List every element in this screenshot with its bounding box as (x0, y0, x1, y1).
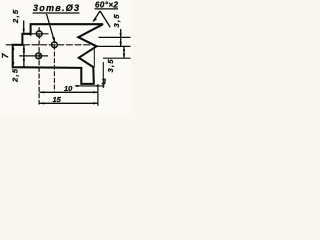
svg-text:10: 10 (64, 84, 73, 93)
svg-text:2,5: 2,5 (11, 9, 20, 24)
svg-text:3: 3 (102, 78, 107, 87)
dim 2,5 bottom: shaft + arrows (23, 45, 25, 68)
extension from tooth tips down through notch (93, 47, 95, 68)
underline 60x2 text (95, 8, 119, 10)
dim 15 line (39, 102, 97, 104)
dim 3: left shaft+arrow, right shaft+arrow (75, 85, 105, 87)
svg-text:15: 15 (53, 95, 62, 104)
centerline vertical through holes A and C, extension to dims (38, 27, 40, 104)
centerline horizontal hole C (19, 55, 48, 57)
hole A (36, 31, 42, 37)
dim 10 line (39, 91, 97, 93)
hole B (52, 42, 58, 48)
leader from 60x2 text (100, 11, 110, 27)
centerline horizontal hole B (long, also left top edge level) (6, 44, 95, 46)
dim 2,5 top: shaft + down arrow (23, 21, 25, 33)
svg-text:3,5: 3,5 (112, 14, 121, 28)
leader from 3 otv text to hole B (47, 14, 55, 41)
svg-text:3,5: 3,5 (106, 59, 115, 73)
step overshoot (30, 24, 32, 36)
svg-text:60°×2: 60°×2 (95, 1, 119, 10)
svg-text:3отв.Ø3: 3отв.Ø3 (33, 3, 79, 13)
centerline horizontal hole A (26, 33, 49, 35)
dim 3,5 upper shaft (120, 29, 122, 46)
part outline (13, 24, 103, 84)
centerline vertical hole B (53, 38, 55, 92)
hole C (36, 53, 42, 59)
dim 7 arrows on left edge (12, 45, 14, 50)
corner extension vertical x=103.3 (102, 62, 104, 88)
underline 3 otv text (33, 12, 80, 14)
svg-text:2,5: 2,5 (11, 68, 20, 83)
right extension vertical for 10/15 (97, 84, 99, 106)
dim 3,5 lower shaft (123, 46, 125, 58)
right side extension lines for 3,5 dims (99, 36, 131, 38)
